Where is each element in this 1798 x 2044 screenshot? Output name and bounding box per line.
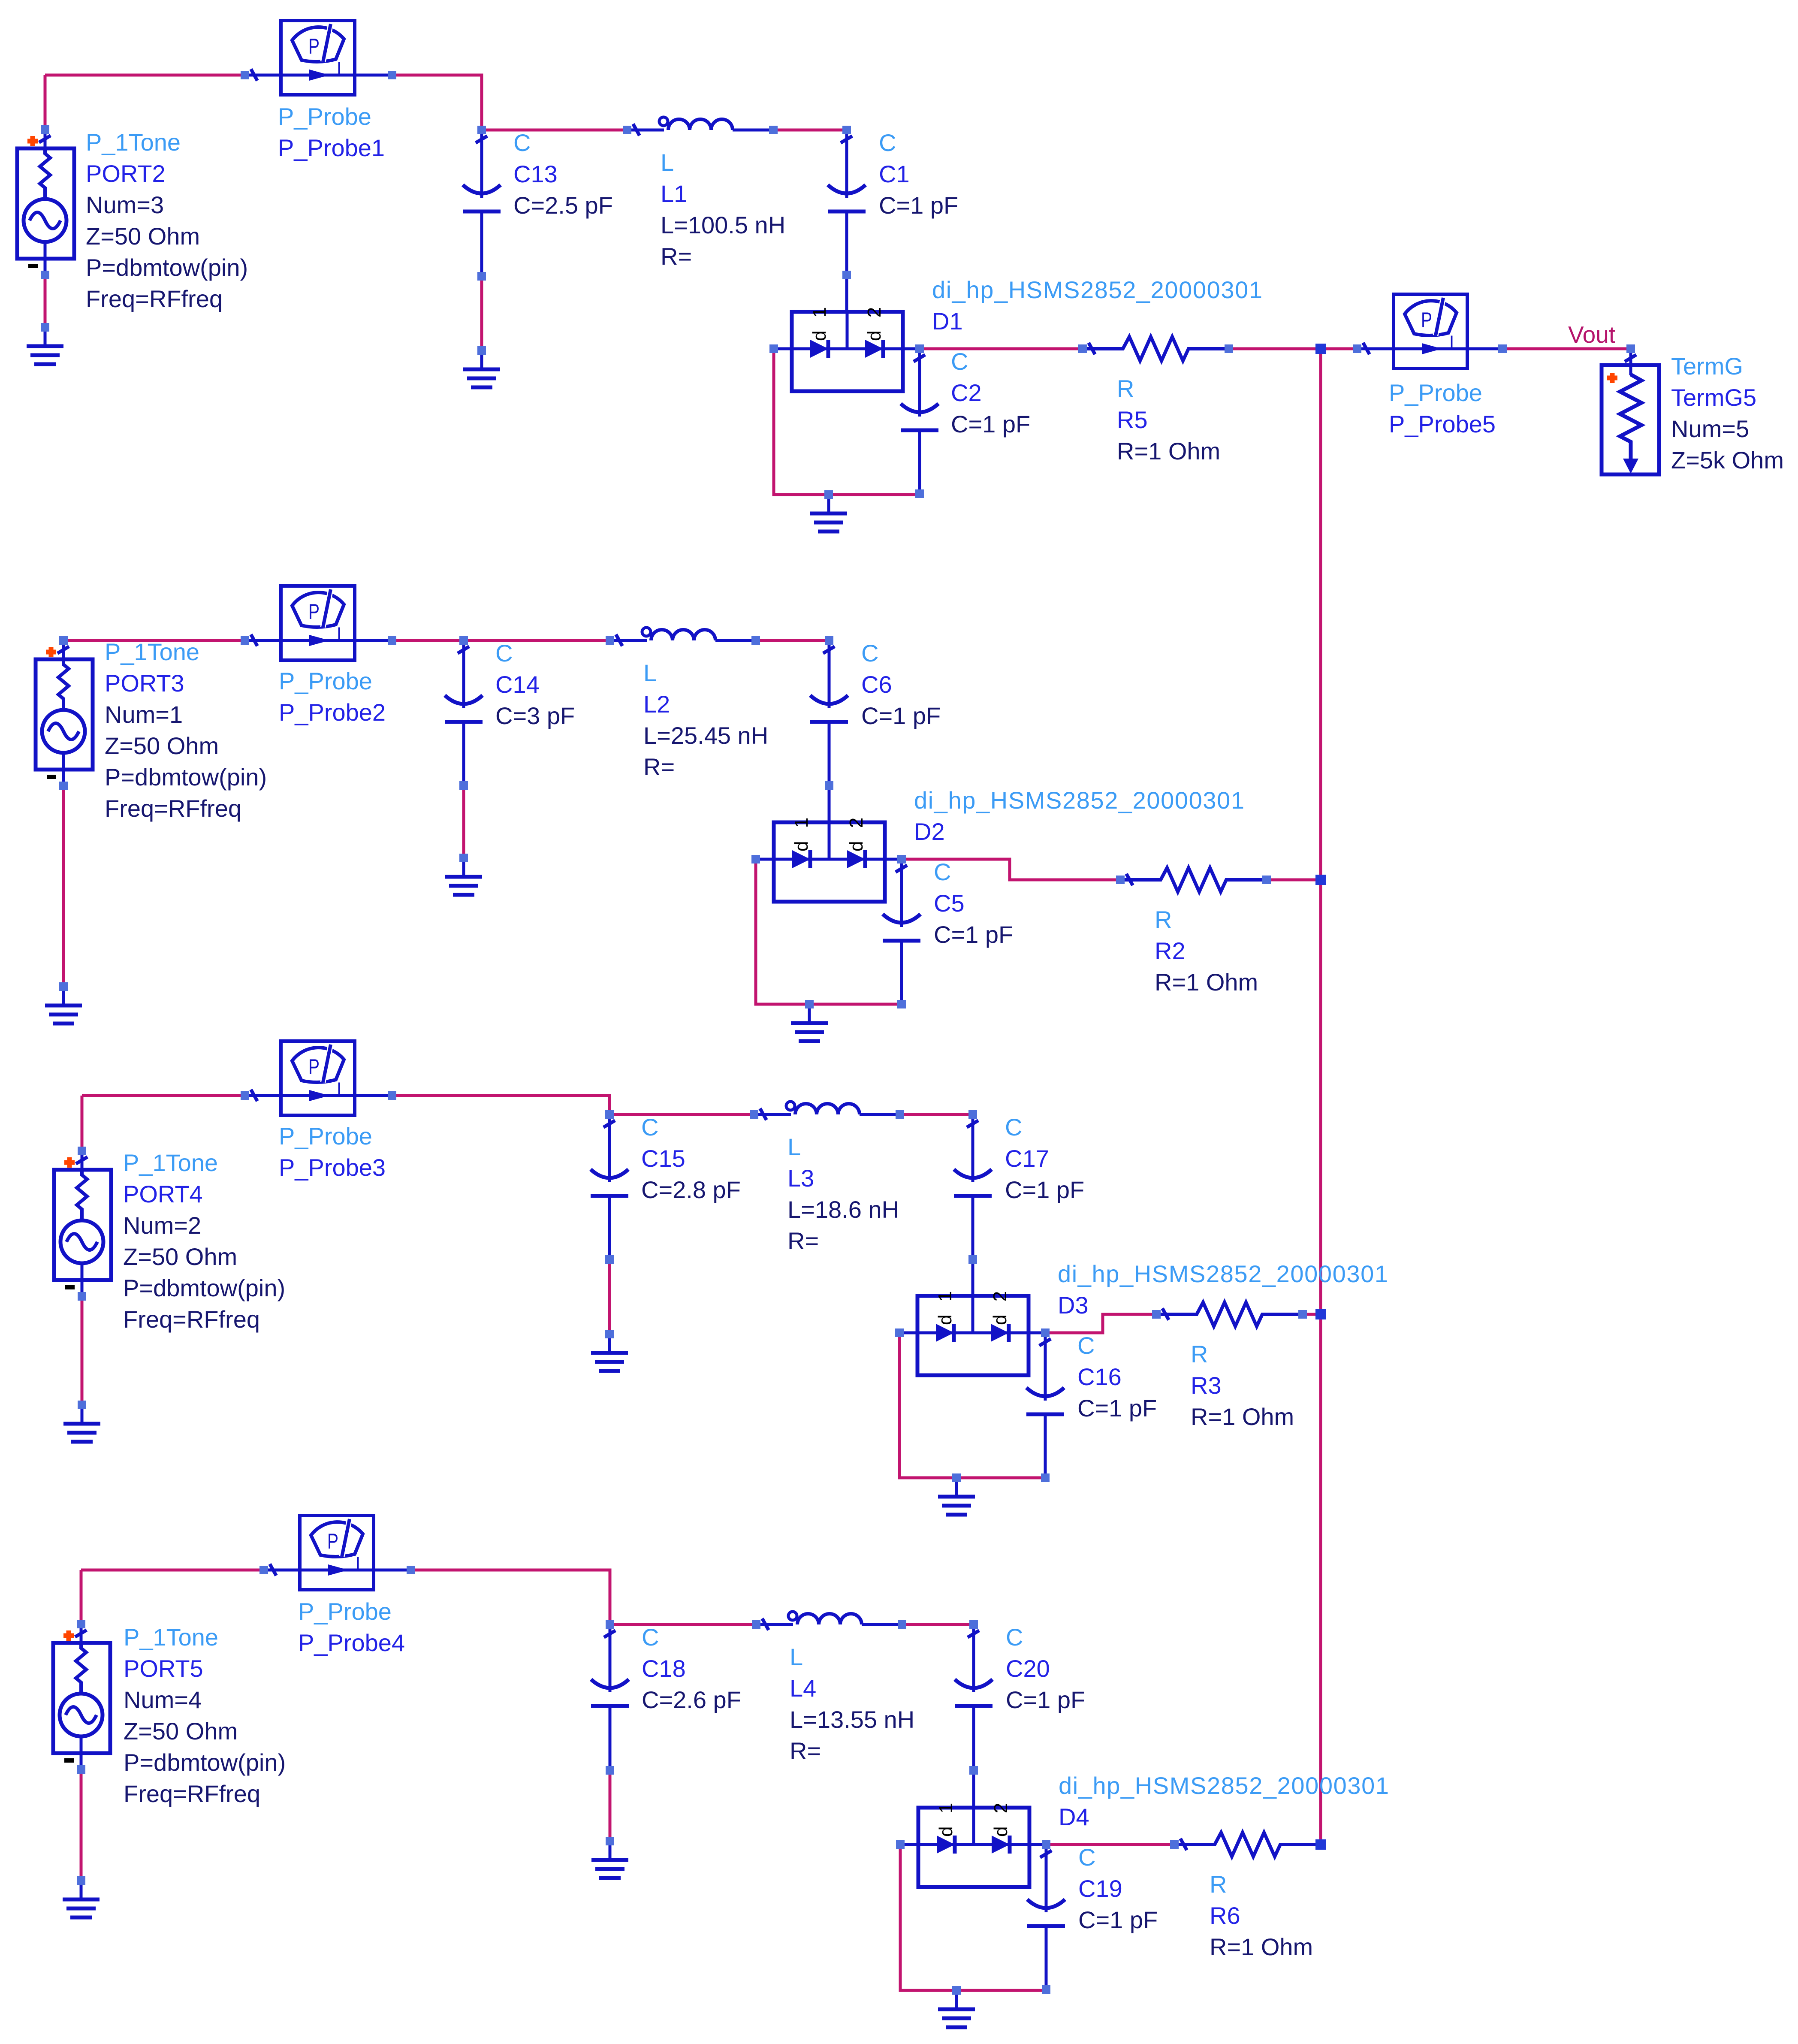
svg-text:C15: C15 [641,1145,685,1172]
svg-text:C: C [861,640,878,667]
pin tick [914,355,925,362]
svg-text:Num=2: Num=2 [123,1212,201,1239]
svg-text:C17: C17 [1005,1145,1049,1172]
ground under D3 [938,1478,975,1515]
wire row4 L4 to C20 [902,1623,974,1626]
label P_Probe3 [279,1123,386,1181]
svg-text:di_hp_HSMS2852_20000301: di_hp_HSMS2852_20000301 [914,787,1245,814]
svg-text:L=13.55 nH: L=13.55 nH [790,1706,914,1733]
pin tick [616,634,622,646]
ground under PORT3 [45,987,82,1024]
wire row3 D3 to R3 [1045,1314,1156,1333]
label D3 [1058,1260,1389,1319]
wire row3 port4 to probe3 [82,1094,245,1097]
node PORT4 minus pin [78,1292,86,1301]
svg-text:D2: D2 [914,818,945,845]
pin tick [1363,343,1370,354]
pin tick [251,634,257,646]
wire row2 D2 ground loop [756,859,902,1004]
label L1 [661,149,785,270]
label L2 [643,659,768,780]
label R5 [1117,375,1220,465]
wire row1 L1 to C1 [773,129,847,132]
svg-text:Freq=RFfreq: Freq=RFfreq [123,1306,260,1333]
inductor L4 [756,1612,902,1624]
node probe2 out [388,636,396,645]
node R5 left [1078,344,1087,353]
svg-text:L=25.45 nH: L=25.45 nH [643,722,768,749]
inductor L2 [610,628,756,640]
power probe P_Probe3 [245,1041,392,1115]
label PORT5 [124,1624,286,1807]
svg-text:P=dbmtow(pin): P=dbmtow(pin) [123,1274,285,1301]
junction bus tee row3 [1315,1309,1326,1319]
node probe1 in [241,71,249,79]
node PORT3 gnd [59,982,68,991]
capacitor C19 [1027,1845,1065,1990]
label P_Probe1 [278,103,385,161]
node C1 top [842,126,851,134]
svg-text:Vout: Vout [1568,321,1615,348]
pin tick [476,136,487,143]
svg-text:Z=50 Ohm: Z=50 Ohm [123,1243,237,1270]
label C6 [861,640,941,729]
node PORT3 minus pin [59,782,68,790]
wire row4 port5 to probe4 [81,1569,264,1572]
svg-text:P_Probe5: P_Probe5 [1389,411,1496,438]
pin tick [633,124,640,136]
node C6 top [825,636,833,645]
wire row1 C1 to D1 lead [845,275,848,312]
pin tick [841,136,852,143]
node C2 bottom [915,489,924,498]
svg-text:R3: R3 [1191,1372,1222,1399]
node C17 top [968,1110,977,1119]
P_1Tone source PORT5 [53,1624,110,1769]
label R3 [1191,1341,1294,1430]
node gnd D3 stem [952,1473,961,1482]
power probe P_Probe2 [245,586,392,660]
node probe5 out [1498,344,1507,353]
capacitor C2 [901,349,938,494]
ground under PORT2 [27,327,63,364]
node L4 left [752,1620,760,1629]
wire row3 C17 to D3 lead [971,1259,974,1297]
svg-text:C13: C13 [513,160,558,187]
node probe4 out [407,1566,415,1574]
ground under PORT4 [63,1405,100,1442]
svg-text:PORT2: PORT2 [86,160,166,187]
svg-text:Z=50 Ohm: Z=50 Ohm [86,223,200,250]
svg-text:R=1 Ohm: R=1 Ohm [1117,438,1220,465]
capacitor C5 [883,859,920,1004]
wire row1 node to L1 [482,129,627,132]
svg-text:C=2.6 pF: C=2.6 pF [642,1686,741,1713]
node D4 left pin [896,1840,905,1849]
label L3 [787,1133,899,1254]
wire row1 D1 ground loop [774,349,920,495]
wire row1 R5 to probe5 [1229,347,1357,350]
pin tick [823,646,835,653]
node R3 left [1152,1310,1161,1319]
label C20 [1006,1624,1085,1713]
svg-text:P_1Tone: P_1Tone [124,1624,218,1651]
pin tick [251,69,257,81]
wire row4 D4 ground loop [900,1845,1046,1990]
pin tick [760,1108,766,1120]
svg-text:TermG5: TermG5 [1671,384,1756,411]
svg-text:L3: L3 [787,1165,814,1192]
node C15 gnd [605,1330,614,1338]
node C1 bottom [842,271,851,279]
node PORT4 pin [78,1147,86,1155]
capacitor C18 [591,1624,629,1769]
node D1 right pin [915,344,924,353]
ground under C13 [463,350,500,387]
node L3 right [896,1110,904,1119]
label C19 [1078,1844,1158,1933]
wire row4 port5 stub [80,1570,83,1624]
node C20 bottom [969,1766,978,1775]
node R2 right [1262,876,1271,884]
termination TermG5 [1602,349,1659,474]
svg-text:R: R [1117,375,1134,402]
node C17 bottom [968,1255,977,1264]
node PORT4 gnd [78,1401,86,1409]
wire row2 C6 to D2 lead [828,785,831,822]
node D1 left pin [769,344,778,353]
node C19 bottom [1042,1985,1050,1994]
wire row3 port4 lower stub [81,1296,84,1405]
node L3 left [750,1110,758,1119]
svg-text:L=100.5 nH: L=100.5 nH [661,211,785,239]
wire row3 port4 stub [81,1096,84,1151]
node PORT5 minus pin [77,1765,85,1774]
ground under D2 [791,1004,828,1041]
capacitor C6 [810,640,848,785]
svg-text:P_1Tone: P_1Tone [105,638,199,665]
node D2 left pin [751,855,760,863]
node gnd D4 stem [952,1986,961,1995]
ground under C18 [591,1841,628,1878]
svg-text:C19: C19 [1078,1875,1122,1902]
node L1 left [623,126,631,134]
wire row2 R2 to bus [1267,879,1321,882]
svg-text:C: C [1006,1624,1023,1651]
svg-text:L: L [661,149,674,176]
node D3 left pin [895,1328,904,1337]
label P_Probe5 [1389,379,1496,438]
pin tick [1625,355,1636,362]
svg-text:R=: R= [661,243,692,270]
svg-text:L: L [787,1133,801,1160]
node C13 top [477,126,486,134]
pin tick [251,1090,257,1101]
wire row3 probe3 to C15 [392,1096,609,1114]
wire output bus vertical [1319,349,1322,1845]
svg-text:di_hp_HSMS2852_20000301: di_hp_HSMS2852_20000301 [1059,1772,1390,1799]
node R3 right [1298,1310,1307,1319]
label C5 [934,858,1013,948]
svg-text:C=1 pF: C=1 pF [1078,1906,1158,1933]
pin tick [1089,343,1095,354]
wire row4 port5 lower stub [80,1769,83,1881]
node R6 left [1170,1840,1179,1849]
node PORT3 pin [59,636,68,645]
label C16 [1077,1332,1157,1422]
svg-text:D3: D3 [1058,1292,1089,1319]
svg-text:L: L [790,1643,803,1670]
pin tick [604,1630,615,1637]
P_1Tone source PORT2 [17,130,74,275]
label R6 [1210,1871,1313,1960]
svg-text:Freq=RFfreq: Freq=RFfreq [124,1780,260,1807]
node L1 right [769,126,778,134]
ground under C14 [445,858,482,895]
wire row1 probe5 to Vout [1502,347,1631,350]
node L2 left [606,636,614,645]
diode pair D1 (HSMS2852) [774,303,920,391]
svg-text:R=1 Ohm: R=1 Ohm [1155,969,1258,996]
label C1 [879,129,958,219]
svg-text:C=3 pF: C=3 pF [495,702,575,729]
node C18 top [606,1620,614,1629]
svg-text:di_hp_HSMS2852_20000301: di_hp_HSMS2852_20000301 [1058,1260,1389,1287]
node D4 right pin [1042,1840,1050,1849]
node probe1 out [388,71,396,79]
ground under C15 [591,1334,628,1371]
svg-text:C=1 pF: C=1 pF [861,702,941,729]
wire row4 C18 lower stub [609,1770,612,1841]
wire row2 C14 lower stub [462,785,465,858]
svg-text:TermG: TermG [1671,353,1743,380]
node PORT5 pin [77,1620,85,1628]
svg-text:C: C [495,640,513,667]
pin tick [76,1157,87,1164]
node L4 right [898,1620,906,1629]
node probe5 in [1353,344,1361,353]
node C18 gnd [606,1837,614,1845]
node C6 bottom [825,781,833,790]
diode pair D2 (HSMS2852) [756,814,902,902]
node gnd D2 stem [805,1000,814,1008]
svg-text:Num=4: Num=4 [124,1686,202,1713]
svg-text:PORT5: PORT5 [124,1655,203,1682]
capacitor C13 [463,130,501,275]
svg-text:PORT3: PORT3 [105,670,184,697]
pin tick [39,136,51,142]
label C15 [641,1114,741,1203]
svg-text:P_1Tone: P_1Tone [86,129,181,156]
svg-text:C: C [879,129,896,156]
svg-text:C=1 pF: C=1 pF [879,192,958,219]
svg-text:C: C [513,129,531,156]
svg-text:C5: C5 [934,890,965,917]
label D4 [1059,1772,1390,1830]
svg-text:L: L [643,659,657,686]
resistor R3 [1156,1302,1303,1326]
diode pair D4 (HSMS2852) [900,1799,1046,1887]
svg-text:P_Probe4: P_Probe4 [298,1629,405,1656]
wire row3 C15 lower stub [608,1259,611,1334]
capacitor C15 [591,1114,628,1259]
label PORT2 [86,129,248,312]
svg-text:R=1 Ohm: R=1 Ohm [1210,1933,1313,1960]
label TermG5 [1671,353,1784,474]
svg-text:P_Probe: P_Probe [1389,379,1482,406]
svg-text:R: R [1155,906,1172,933]
node C15 bottom [605,1255,614,1264]
svg-text:C: C [951,348,968,375]
label C13 [513,129,613,219]
node C5 bottom [897,1000,906,1008]
wire row2 D2 to R2 [902,859,1120,880]
svg-text:R=1 Ohm: R=1 Ohm [1191,1403,1294,1430]
wire row4 D4 to R6 [1046,1843,1174,1846]
ground under D1 [810,495,847,531]
node TermG5 pin [1626,344,1635,353]
svg-text:D4: D4 [1059,1803,1089,1830]
svg-text:P_Probe: P_Probe [279,1123,372,1150]
node PORT2 gnd [41,323,49,332]
node PORT2 pin [41,125,49,134]
svg-text:D1: D1 [932,308,963,335]
svg-text:C: C [641,1114,658,1141]
power probe P_Probe5 [1358,294,1505,368]
svg-text:C=1 pF: C=1 pF [1077,1395,1157,1422]
node probe3 in [241,1091,249,1100]
svg-text:C6: C6 [861,671,892,698]
pin tick [270,1564,276,1576]
capacitor C16 [1026,1333,1064,1478]
svg-text:C=1 pF: C=1 pF [934,921,1013,948]
node C15 top [605,1110,614,1119]
power probe P_Probe4 [264,1516,411,1590]
label P_Probe4 [298,1598,405,1656]
resistor R2 [1120,868,1267,892]
node PORT5 gnd [77,1876,85,1885]
svg-text:R=: R= [787,1227,819,1254]
svg-text:L2: L2 [643,691,670,718]
svg-text:R5: R5 [1117,406,1148,433]
svg-text:C1: C1 [879,160,910,187]
wire row3 D3 ground loop [899,1333,1045,1478]
wire row1 D1 to R5 [920,347,1083,350]
ground under PORT5 [63,1881,100,1917]
svg-text:R2: R2 [1155,937,1186,964]
capacitor C14 [445,640,483,785]
svg-text:Z=50 Ohm: Z=50 Ohm [124,1718,238,1745]
svg-text:Freq=RFfreq: Freq=RFfreq [86,285,223,312]
node PORT2 minus pin [41,271,49,279]
svg-text:L4: L4 [790,1675,816,1702]
wire row2 L2 to C6 [756,639,829,642]
wire row1 port2 stub [44,75,47,130]
diode pair D3 (HSMS2852) [899,1287,1045,1375]
capacitor C1 [828,130,866,275]
svg-text:P_Probe: P_Probe [279,667,372,694]
label D2 [914,787,1245,845]
label L4 [790,1643,914,1764]
svg-text:C: C [1077,1332,1095,1359]
svg-text:C=1 pF: C=1 pF [1006,1686,1085,1713]
node C14 bottom [459,781,468,790]
svg-text:P_Probe2: P_Probe2 [279,699,386,726]
label D1 [932,276,1263,335]
svg-text:PORT4: PORT4 [123,1181,203,1208]
svg-text:C=2.5 pF: C=2.5 pF [513,192,613,219]
svg-text:Num=1: Num=1 [105,701,183,728]
svg-text:C=2.8 pF: C=2.8 pF [641,1176,741,1203]
pin tick [75,1630,87,1637]
node probe2 in [241,636,249,645]
svg-text:Num=3: Num=3 [86,191,164,218]
wire row1 port2 lower stub [44,275,47,327]
power probe P_Probe1 [245,21,392,95]
label R2 [1155,906,1258,996]
wire row1 port2 to probe1 [45,74,245,77]
resistor R5 [1083,337,1229,361]
pin tick [1126,874,1133,885]
wire row4 C20 to D4 lead [972,1770,975,1809]
wire row3 L3 to C17 [900,1113,973,1116]
wire row2 probe2 to L2 [392,639,610,642]
svg-text:L1: L1 [661,180,687,207]
node probe4 in [259,1566,268,1574]
node D2 right pin [897,855,906,863]
node gnd D1 stem [824,490,833,499]
wire row4 node to L4 [610,1623,756,1626]
svg-text:Freq=RFfreq: Freq=RFfreq [105,795,241,822]
pin tick [968,1630,979,1637]
P_1Tone source PORT4 [54,1151,111,1296]
label C14 [495,640,575,729]
node C20 top [969,1620,978,1629]
wire row2 port3 lower stub [62,786,65,987]
wire row1 probe1 out [392,75,482,130]
node R2 left [1116,876,1125,884]
wire row3 R3 to bus [1303,1313,1321,1316]
pin tick [1162,1308,1169,1320]
svg-text:R: R [1191,1341,1208,1368]
pin tick [896,865,907,872]
label C17 [1005,1114,1084,1203]
wire row4 probe4 to C18 [411,1570,610,1624]
node R5 right [1225,344,1233,353]
node C18 bottom [606,1766,614,1775]
svg-text:P_1Tone: P_1Tone [123,1149,218,1176]
svg-text:P_Probe1: P_Probe1 [278,134,385,161]
svg-text:C20: C20 [1006,1655,1050,1682]
node C14 gnd [459,854,468,862]
node C13 bottom [477,272,486,281]
svg-text:C18: C18 [642,1655,686,1682]
pin tick [458,646,469,653]
P_1Tone source PORT3 [36,640,93,786]
svg-text:R6: R6 [1210,1902,1240,1929]
ground under D4 [938,1990,975,2027]
svg-text:C: C [1078,1844,1095,1871]
label C2 [951,348,1030,438]
svg-text:P_Probe3: P_Probe3 [279,1154,386,1181]
svg-text:R=: R= [790,1737,821,1764]
svg-text:Z=50 Ohm: Z=50 Ohm [105,732,219,759]
junction bus tee row2 [1315,875,1326,885]
svg-text:L=18.6 nH: L=18.6 nH [787,1196,899,1223]
node L2 right [751,636,760,645]
label PORT4 [123,1149,285,1333]
pin tick [1180,1839,1187,1850]
